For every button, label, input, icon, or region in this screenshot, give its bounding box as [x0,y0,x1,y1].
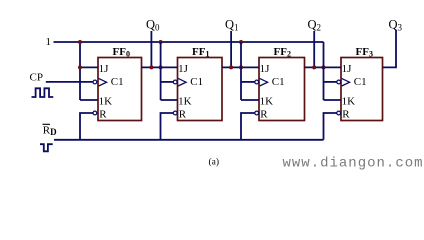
wire: constant-1 top rail [54,41,324,43]
svg-text:C1: C1 [272,76,285,88]
reset inversion bubble (FF0) [93,111,97,115]
svg-text:www.diangon.com: www.diangon.com [283,155,424,171]
svg-text:R: R [342,108,350,120]
node: rail junction stage 1 [159,40,163,44]
node: rail-drop junction on Q line (stage 2) [239,65,243,69]
svg-text:C1: C1 [354,76,367,88]
svg-text:1J: 1J [99,63,110,75]
flip-flop FF3 box [341,58,383,121]
clock edge triangle (FF3) [342,78,350,86]
wire: clock branch to FF2 C1 [241,81,255,83]
svg-text:(a): (a) [209,156,220,167]
wire: clock branch to FF3 C1 [324,81,337,83]
wire: FF3 Q output up to Q3 label [383,30,397,67]
svg-text:CP: CP [30,72,43,84]
svg-text:R: R [179,108,187,120]
flip-flop FF1 box [178,58,223,121]
clock edge triangle (FF1) [178,78,186,86]
svg-text:RD: RD [43,125,57,137]
symbol: RD negative pulse waveform [40,144,53,151]
wire: rail drop to FF1 J/K [160,42,162,100]
node: J junction FF0 [78,65,82,69]
svg-text:FF1: FF1 [192,46,209,59]
wire: FF1 Q output to FF2 1J [222,66,259,68]
reset inversion bubble (FF1) [173,111,177,115]
wire: reset riser to FF0 R [80,113,93,140]
svg-text:FF3: FF3 [356,46,373,59]
overline of RD [43,123,51,125]
svg-text:FF2: FF2 [274,46,291,59]
clock inversion bubble (FF3) [337,80,341,84]
svg-text:1J: 1J [178,63,189,75]
svg-text:Q2: Q2 [308,17,322,32]
svg-text:FF0: FF0 [113,46,130,59]
wire: Q1 vertical from label [230,31,232,67]
wire: reset riser to FF3 R [324,113,337,140]
clock inversion bubble (FF2) [255,80,259,84]
node: Q0 junction [149,65,153,69]
svg-text:1: 1 [46,36,52,48]
wire: CP clock line to FF0 [46,81,93,83]
wire: Q0 vertical from label [150,31,152,67]
node: rail-drop junction on Q line (stage 3) [322,65,326,69]
svg-text:C1: C1 [111,76,124,88]
wire: FF2 Q output to FF3 1J [305,66,342,68]
svg-text:1K: 1K [99,96,113,108]
flip-flop FF0 box [98,58,142,121]
wire: Q2 vertical from label [313,31,315,67]
clock edge triangle (FF2) [260,78,268,86]
wire: 1K input FF0 [80,99,98,101]
clock edge triangle (FF0) [99,78,107,86]
flip-flop FF2 box [259,58,305,121]
clock inversion bubble (FF0) [93,80,97,84]
node: rail-drop junction on Q line (stage 1) [159,65,163,69]
wire: 1K input FF3 [324,99,342,101]
reset inversion bubble (FF2) [255,111,259,115]
svg-text:C1: C1 [190,76,203,88]
clock inversion bubble (FF1) [173,80,177,84]
svg-text:1K: 1K [178,96,192,108]
node: Q2 junction [312,65,316,69]
wire: 1K input FF1 [161,99,178,101]
node: rail junction FF0 [78,40,82,44]
svg-text:1K: 1K [342,96,356,108]
svg-text:R: R [99,108,107,120]
wire: reset riser to FF2 R [241,113,255,140]
node: Q1 junction [229,65,233,69]
svg-text:R: R [260,108,268,120]
wire: reset bottom rail [54,139,324,141]
reset inversion bubble (FF3) [337,111,341,115]
svg-text:Q1: Q1 [225,17,239,32]
wire: 1J input FF0 [80,66,98,68]
symbol: CP clock waveform [32,88,54,97]
wire: rail drop to FF3 J/K [323,42,325,100]
wire: clock branch to FF1 C1 [161,81,174,83]
svg-text:1K: 1K [260,96,274,108]
wire: rail drop to FF0 J/K [79,42,81,100]
wire: 1K input FF2 [241,99,259,101]
wire: FF0 Q output to FF1 1J [142,66,178,68]
wire: reset riser to FF1 R [161,113,174,140]
svg-text:1J: 1J [260,63,271,75]
svg-text:Q0: Q0 [146,17,160,32]
wire: rail drop to FF2 J/K [240,42,242,100]
svg-text:1J: 1J [342,63,353,75]
node: rail junction stage 2 [239,40,243,44]
